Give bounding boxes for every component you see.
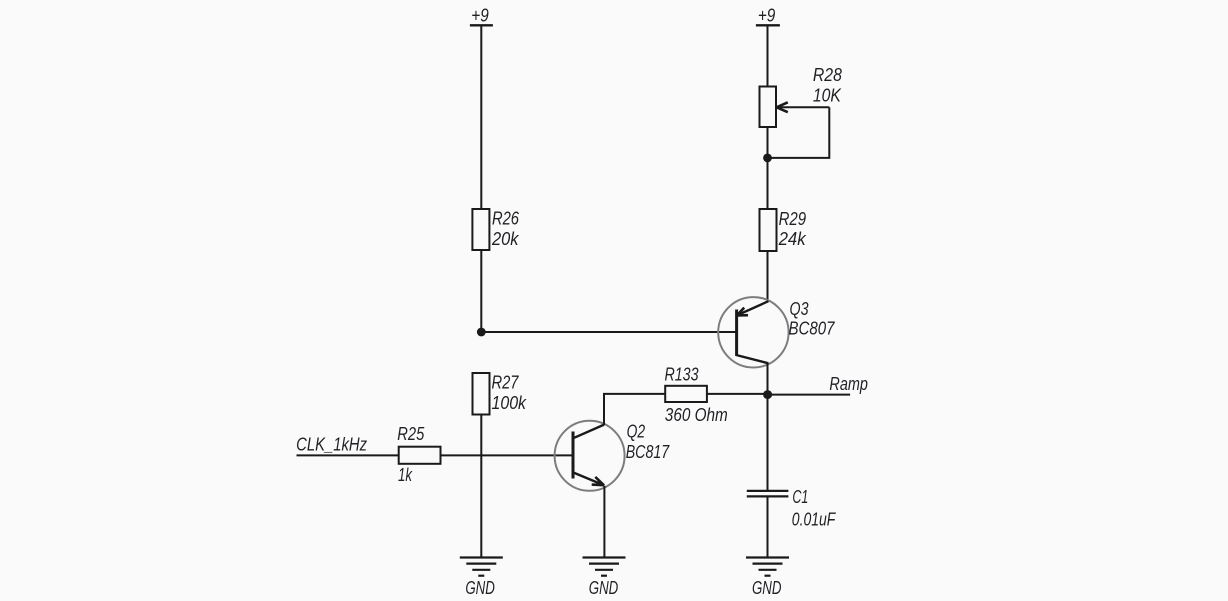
wire: R28 wiper loop to lower terminal	[768, 107, 830, 158]
wire: C1 to ground	[767, 496, 769, 557]
resistor R27	[473, 373, 527, 415]
svg-text:GND: GND	[752, 578, 782, 598]
transistor Q3 (PNP BC807)	[718, 297, 835, 367]
resistor R26	[472, 209, 519, 251]
wire: Q2 collector riser to R133	[604, 394, 665, 425]
ground (left, under R27)	[460, 558, 503, 599]
potentiometer R28	[760, 65, 842, 127]
svg-text:+9: +9	[758, 6, 776, 26]
power +9 (right rail)	[756, 6, 780, 26]
node: divider junction at Q3 base	[477, 328, 486, 337]
svg-text:+9: +9	[471, 6, 489, 26]
svg-text:GND: GND	[589, 578, 619, 598]
svg-text:0.01uF: 0.01uF	[792, 510, 836, 530]
wire: Q2 emitter down to ground	[603, 486, 605, 558]
node: Ramp junction	[763, 390, 772, 399]
wire: R28 bottom to R29 top	[767, 127, 769, 210]
svg-text:R28: R28	[813, 65, 842, 85]
svg-text:R25: R25	[397, 424, 425, 444]
node: R28 wiper junction	[763, 154, 772, 163]
svg-text:GND: GND	[465, 578, 495, 598]
power +9 (left rail)	[470, 6, 493, 26]
svg-text:R26: R26	[492, 209, 520, 229]
resistor R29	[760, 209, 807, 251]
wire: R133 to Ramp node	[707, 393, 768, 395]
svg-text:R133: R133	[665, 365, 699, 385]
svg-text:20k: 20k	[491, 229, 519, 249]
svg-text:100k: 100k	[492, 393, 527, 413]
resistor R133	[665, 365, 728, 426]
svg-text:24k: 24k	[778, 229, 807, 249]
wire: left +9 rail down to R26	[480, 25, 482, 210]
svg-text:CLK_1kHz: CLK_1kHz	[296, 435, 367, 455]
ground (middle, under Q2)	[583, 558, 626, 599]
svg-text:Q3: Q3	[790, 299, 809, 319]
net Ramp	[768, 374, 868, 395]
svg-text:1k: 1k	[398, 465, 413, 485]
svg-text:360 Ohm: 360 Ohm	[665, 405, 728, 425]
wire: Q3 collector down to Ramp node	[767, 363, 769, 395]
wire: R29 to Q3 emitter	[767, 251, 769, 302]
ground (right, under C1)	[746, 558, 789, 599]
svg-text:10K: 10K	[813, 86, 842, 106]
svg-text:Q2: Q2	[627, 422, 646, 442]
svg-text:BC807: BC807	[789, 319, 836, 339]
svg-text:C1: C1	[792, 487, 808, 507]
svg-text:R27: R27	[492, 373, 520, 393]
svg-text:R29: R29	[779, 209, 807, 229]
svg-text:Ramp: Ramp	[829, 374, 868, 394]
svg-text:BC817: BC817	[626, 442, 670, 462]
capacitor C1	[747, 487, 836, 530]
wire: right +9 rail down to R28	[767, 25, 769, 87]
resistor R25	[397, 424, 440, 485]
wire: R26 to Q3 base node	[480, 250, 482, 332]
wire: R25 to Q2 base	[441, 454, 573, 456]
transistor Q2 (NPN BC817)	[555, 421, 670, 491]
wire: base node to Q3 base	[481, 331, 736, 333]
wire: R27 down to ground (crosses CLK wire, no junction)	[480, 415, 482, 558]
wire: Ramp node down to C1	[767, 395, 769, 490]
net CLK_1kHz	[296, 435, 399, 456]
